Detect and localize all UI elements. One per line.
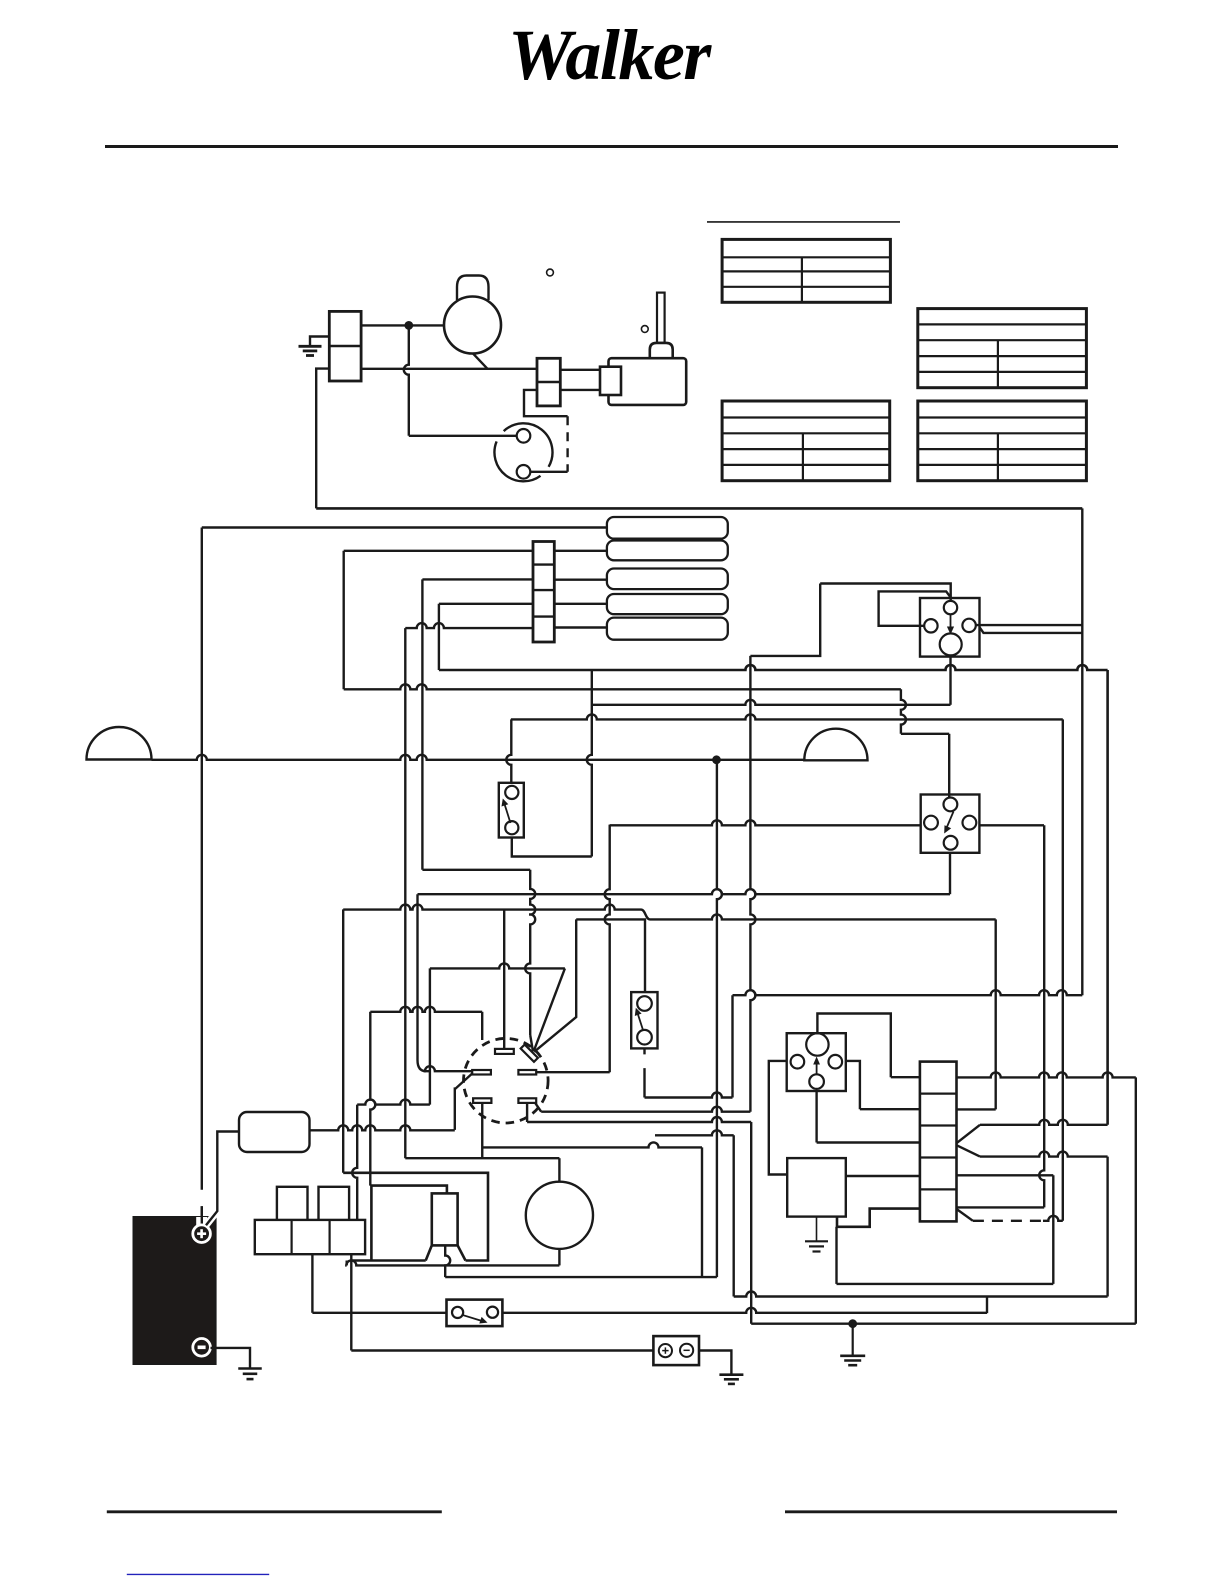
S1 top wire (506, 719, 511, 782)
ground G4 battery (238, 1367, 262, 1370)
ignition slot left (472, 1070, 491, 1075)
V3 jog x439 (438, 604, 440, 670)
headlight dome 2 (804, 729, 867, 761)
bottom bus y1324 (751, 1322, 1136, 1324)
blade from left slot (455, 1074, 472, 1130)
x482 stub into ignition (481, 1012, 483, 1040)
wire Wb f2-corner to S2 top (576, 919, 645, 992)
header rule (105, 145, 1118, 148)
RL1 right wire a (976, 624, 1083, 626)
RL2 pin bottom (944, 836, 958, 850)
RL1 top feed wire (820, 584, 951, 602)
fork lower wire (980, 1152, 1108, 1157)
magneto left wire (769, 1061, 787, 1175)
y825 wire to relay2 (610, 820, 921, 825)
svg-text:Walker: Walker (508, 15, 712, 95)
C vertical x370 (370, 1012, 375, 1186)
L2 drop x901 to relay2 riser (901, 689, 906, 734)
left slot wire (425, 1066, 472, 1071)
S3 pin left (452, 1307, 463, 1318)
f2 vertical (534, 919, 576, 1051)
ignition slot bottomright (518, 1098, 536, 1103)
fuse F1 (239, 1112, 310, 1152)
cell3 feed wire y603 (439, 603, 533, 605)
ignition slot top (495, 1049, 514, 1054)
connector CN2 (537, 358, 560, 406)
branch y1147 (482, 1142, 702, 1147)
cell5 right dashed wire (957, 1209, 973, 1221)
fuse block inner box (371, 1186, 447, 1260)
RL1 pin left (924, 619, 937, 632)
cell4 right wire (957, 1174, 1054, 1176)
f1 wire (430, 963, 565, 968)
y1284 wire (835, 1227, 837, 1284)
L1 drop x1107 to fork (1106, 670, 1109, 1125)
S3 pin right (487, 1307, 498, 1318)
RL1 bottom to L3 (949, 657, 951, 705)
wire CN1 to CN2 (lower) (361, 368, 537, 370)
regulator step wire to cell5 (837, 1209, 920, 1227)
fuel pump terminal 1 (517, 429, 531, 443)
ignition slot right (518, 1070, 536, 1075)
fork lower drop (1106, 1157, 1108, 1297)
S1 arrow (505, 804, 511, 823)
x592 vertical L1 to S1 (587, 670, 592, 857)
wire CN1 to lamp (361, 324, 444, 326)
V2 vertical x422 (579->870) (421, 579, 423, 869)
RL1 coil loop (879, 591, 951, 625)
y1104 wire (357, 1100, 430, 1105)
S1 pin top (505, 786, 518, 799)
y1297 wire (734, 1292, 1108, 1297)
x1054 vertical (1052, 1175, 1054, 1284)
S3 drop wire (311, 1254, 313, 1313)
vent hole circle b (641, 326, 648, 333)
connector CN4 strip (920, 1062, 957, 1222)
junction dot dome (713, 757, 719, 763)
spec table 4 (918, 401, 1087, 481)
F1 left wire to battery (206, 1205, 217, 1225)
junction dot A (406, 322, 412, 328)
wire label R5 (607, 618, 728, 640)
RL1 pin top (944, 601, 957, 614)
magneto arrow (816, 1062, 818, 1074)
S2 pin bottom (637, 1030, 652, 1045)
x609 vertical (605, 825, 610, 1073)
fuse block outer box (343, 1173, 488, 1261)
RL1 feed path from relay riser (750, 584, 820, 656)
battery body (134, 1217, 216, 1364)
RL2 pin top (944, 798, 958, 812)
V2prime x417 (894 down) (418, 894, 430, 1071)
magneto coil circle (806, 1033, 828, 1055)
indicator lamp L1 (457, 276, 489, 301)
x1136 vertical (1135, 1077, 1137, 1323)
RL1 pin bottom (940, 633, 962, 655)
wire-label connector CN3 (533, 542, 554, 643)
table caption line (707, 221, 900, 223)
ground G2 stem (852, 1324, 854, 1356)
S3 right wire (502, 1308, 987, 1313)
J2 right wire (699, 1351, 731, 1375)
bottomleft slot wire (481, 1103, 483, 1158)
wire label R4 (607, 594, 728, 614)
cell4 feed wire y628 (405, 623, 533, 628)
S1 bottom wire (512, 838, 592, 857)
relay2 riser x949 (948, 734, 950, 797)
S2 arrow (638, 1013, 644, 1030)
wire CN2 to fuel pump loop (524, 390, 568, 416)
switch S1 box (499, 783, 524, 838)
RL2 pin left (924, 816, 938, 830)
spec table 2 (918, 309, 1087, 388)
solenoid body (432, 1193, 458, 1245)
S1 pin bottom (505, 821, 518, 834)
J2 drop wire (350, 1254, 352, 1350)
RL2 bottom wire (949, 853, 951, 894)
regulator right wire (846, 1175, 920, 1177)
battery plus terminal (193, 1225, 211, 1243)
fuse terminal strip (255, 1220, 365, 1254)
x751 lower vertical (750, 1122, 752, 1324)
magneto pin left (791, 1055, 805, 1069)
spec table 1 (722, 239, 890, 302)
regulator ground (816, 1217, 818, 1242)
fuel pump outer (494, 423, 552, 481)
battery positive long wire (y527 bus) (202, 526, 607, 528)
starter motor (526, 1182, 593, 1249)
RL2 arrow (947, 812, 954, 829)
ignition top wire x504 (503, 910, 505, 1049)
magneto pin bottom (809, 1074, 824, 1089)
vent hole circle a (547, 269, 554, 276)
V2 jog to x530 (422, 869, 530, 871)
S3 riser x987 (986, 1297, 988, 1314)
wires CN2 to coil (560, 369, 601, 371)
battery plus notch (196, 1217, 207, 1226)
bus wire y508 to right column (316, 507, 1082, 510)
J2 plus pin (659, 1344, 672, 1357)
switch blade from lamp (473, 353, 488, 369)
switch S3 box (447, 1300, 503, 1327)
ground G2 (840, 1355, 865, 1358)
footer line left (107, 1510, 442, 1513)
cell1 feed U-wire (left loop) (344, 550, 533, 552)
battery positive vertical x202 (201, 528, 203, 1226)
y825 wire relay2 to x1044 (979, 824, 1044, 826)
coil terminal block (600, 367, 621, 395)
relay RL2 box (921, 795, 980, 853)
spec table 3 (722, 401, 890, 481)
dashed lead to fuel pump (566, 416, 568, 472)
right slot wire (536, 1071, 610, 1073)
B vertical x357 (352, 1105, 357, 1220)
J2 minus pin (680, 1344, 693, 1357)
H3 wire y1135 (655, 1130, 734, 1135)
spark plug terminal (657, 293, 665, 343)
RL1 right wire b (980, 627, 1083, 633)
regulator box (787, 1158, 846, 1217)
spark plug boot (650, 343, 673, 358)
x996 vertical (995, 919, 997, 1109)
L4 wire y719 (511, 714, 1063, 719)
right column vertical x1082 (508->995) (1081, 508, 1083, 995)
fuse cartridges (277, 1187, 308, 1227)
RL1 arrow (950, 615, 952, 628)
RL2 pin right (963, 816, 977, 830)
x717 vertical from dome dot (717, 760, 722, 1277)
wire CN1-left down (to y508 bus) (316, 369, 329, 509)
V1 vertical x405 (628->1158) (404, 628, 406, 1158)
S2 pin top (637, 996, 652, 1011)
solenoid skirt (426, 1245, 466, 1260)
relay RL1 box (920, 598, 980, 657)
wire label R3 (607, 569, 728, 590)
L1 wire y670 (439, 665, 1108, 670)
wire Wa y910 (343, 905, 641, 910)
x530 vertical to ignition fan (525, 870, 535, 1035)
battery minus terminal (193, 1339, 211, 1357)
starter bottom wire (558, 1249, 560, 1265)
y995 wire to x1082 (733, 990, 1083, 995)
headlight dome 1 (87, 727, 152, 760)
cell2 feed wire y579 (422, 578, 533, 580)
junction dot ground bus (850, 1321, 856, 1327)
ignition switch dashed circle (464, 1038, 549, 1123)
magneto bottom wire (815, 1091, 817, 1143)
Wa continues y919 to x996 (650, 914, 996, 919)
wire dot-A down to fuel pump (404, 325, 409, 435)
magneto box (787, 1033, 846, 1091)
fuel pump terminal 2 (517, 465, 531, 479)
ground G3 (719, 1373, 743, 1376)
footer hyperlink underline (127, 1573, 269, 1575)
bottomright slot diag wire (535, 1103, 541, 1112)
cell2 right wire (957, 1108, 996, 1110)
fork upper wire (980, 1120, 1108, 1125)
CN3 cell wires to labels (554, 550, 607, 552)
solenoid pin wire (445, 1245, 450, 1277)
x1044 vertical (1039, 825, 1044, 1207)
magneto top wire (817, 1014, 890, 1078)
ignition slot topright (521, 1045, 538, 1062)
L2 wire y689 (344, 684, 901, 689)
S3 arrow (462, 1315, 482, 1321)
Wa jog down to y919 (641, 910, 650, 920)
L4 drop x1063 (1062, 719, 1064, 1220)
L3 wire y705 (592, 700, 951, 705)
battery plus wire gap cover (201, 1206, 203, 1226)
ground GND1 (engine connector) (310, 337, 329, 347)
f1 vertical x430 (429, 968, 431, 1104)
ignition coil body (609, 358, 687, 405)
ignition slot bottomleft (473, 1098, 491, 1103)
x702 vertical (701, 1147, 703, 1277)
cell1 right wire (957, 1072, 1136, 1077)
S2 bottom wire (643, 1048, 645, 1097)
RL1 pin right (962, 619, 975, 632)
wire label R1 (607, 517, 728, 539)
switch S2 box (631, 992, 657, 1048)
starter top wire (405, 1157, 559, 1159)
connector CN1 (engine kill block) (329, 311, 361, 381)
magneto right wire (846, 1061, 860, 1109)
dome wire y760 (152, 755, 805, 760)
magneto pin right (829, 1055, 843, 1069)
cell3 fork (957, 1125, 981, 1157)
battery minus wire (211, 1348, 251, 1368)
blade wire to fuse F1 (310, 1125, 455, 1130)
connector J2 box (653, 1336, 699, 1365)
x734 vertical (733, 1135, 735, 1296)
y1012 wire (370, 1007, 482, 1012)
bottomright slot down wire (526, 1103, 528, 1122)
A vertical x343 (342, 909, 344, 1172)
x750 long vertical (relay1 loop to ignition) (750, 656, 755, 1112)
footer line right (785, 1510, 1117, 1513)
wire label R2 (607, 541, 728, 561)
